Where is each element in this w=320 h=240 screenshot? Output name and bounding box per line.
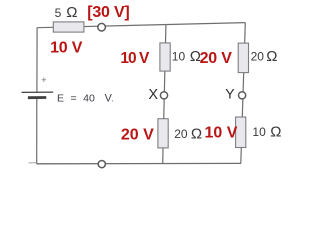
- svg-text:20 V: 20 V: [121, 127, 154, 144]
- svg-text:10 V: 10 V: [50, 40, 83, 57]
- resistor 20 ohm (right top): [238, 43, 248, 73]
- resistor 20 ohm (middle bottom): [158, 119, 168, 148]
- svg-text:20 V: 20 V: [200, 50, 233, 67]
- wire: left vertical (source branch, below battery): [36, 98, 38, 164]
- node X: [148, 87, 167, 103]
- svg-text:V.: V.: [105, 92, 114, 104]
- wire: bottom horizontal rail: [37, 162, 241, 164]
- voltage label: 20 V (middle bottom resistor): [121, 127, 154, 144]
- voltage label: 20 V (right top resistor): [200, 50, 233, 67]
- resistor 10 ohm (right bottom): [236, 117, 246, 148]
- value label: 20 ohm (middle bottom): [174, 125, 202, 142]
- node Y: [225, 85, 246, 101]
- battery E (40 V source): [22, 75, 54, 98]
- value label: 10 ohm (right bottom): [252, 123, 281, 140]
- voltage label: [30 V]: [87, 4, 129, 21]
- svg-text:[30 V]: [30 V]: [87, 4, 129, 21]
- svg-text:E = 40: E = 40: [57, 92, 95, 104]
- svg-text:5: 5: [55, 6, 62, 20]
- voltage label: 10 V (5 ohm resistor): [50, 40, 83, 57]
- wire: short stub at bottom-left corner: [29, 162, 37, 164]
- svg-text:10: 10: [172, 50, 186, 64]
- svg-text:+: +: [41, 75, 46, 85]
- voltage label: 10 V (middle top resistor): [120, 50, 150, 67]
- svg-text:Y: Y: [225, 85, 235, 101]
- value label: 20 ohm (right top): [251, 48, 278, 65]
- wire: left vertical (source branch, above battery): [36, 27, 38, 92]
- wire: middle vertical branch: [163, 25, 166, 163]
- svg-text:10: 10: [252, 125, 266, 139]
- svg-text:Ω: Ω: [270, 123, 281, 140]
- svg-text:Ω: Ω: [266, 48, 277, 65]
- label: E = 40 V: [57, 92, 114, 104]
- node: bottom terminal circle: [98, 161, 105, 168]
- value label: 10 ohm (middle top): [172, 48, 201, 65]
- voltage label: 10 V (right bottom resistor): [205, 124, 238, 141]
- svg-text:20: 20: [174, 127, 188, 141]
- wire: right vertical branch: [241, 23, 246, 164]
- value label: 5 ohm: [55, 4, 78, 21]
- wire: top horizontal rail: [37, 23, 245, 28]
- svg-text:10 V: 10 V: [120, 50, 150, 67]
- resistor 5 ohm (top): [53, 22, 84, 32]
- svg-text:Ω: Ω: [191, 125, 202, 142]
- svg-text:20: 20: [251, 50, 265, 64]
- svg-text:10 V: 10 V: [205, 124, 238, 141]
- svg-text:Ω: Ω: [66, 4, 77, 21]
- resistor 10 ohm (middle top): [160, 43, 170, 71]
- svg-text:X: X: [148, 87, 158, 103]
- node: top terminal circle: [98, 23, 106, 31]
